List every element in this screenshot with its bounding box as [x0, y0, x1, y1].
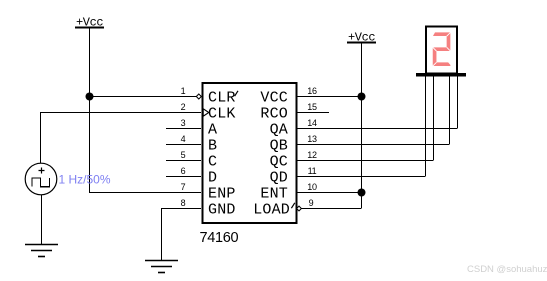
svg-text:D: D	[208, 170, 217, 187]
pin 2 CLK clock wedge	[203, 109, 209, 116]
svg-text:C: C	[208, 154, 217, 171]
node junction dot pin10/Vcc	[358, 189, 366, 197]
digit 2 segments a,b,g,e,d	[433, 34, 450, 64]
segment d right tip cut	[448, 62, 451, 65]
svg-text:+Vcc: +Vcc	[76, 16, 103, 30]
segment separator a/b	[447, 32, 451, 36]
wire pin1 CLR horizontal	[89, 96, 197, 98]
svg-text:2: 2	[181, 102, 186, 112]
svg-text:A: A	[208, 122, 217, 139]
wire pin10 ENT horizontal	[297, 192, 361, 194]
svg-text:11: 11	[308, 166, 317, 176]
svg-text:GND: GND	[208, 202, 236, 219]
wire pin16 VCC horizontal	[297, 96, 361, 98]
display U2 seven-segment body	[426, 27, 457, 74]
svg-text:4: 4	[181, 134, 186, 144]
wire pin12 QC horizontal	[297, 160, 433, 162]
svg-text:16: 16	[307, 86, 317, 96]
wire pin5 C stub	[166, 160, 201, 162]
svg-text:CSDN @sohuahuz: CSDN @sohuahuz	[467, 264, 547, 275]
wire display pin b vertical	[433, 76, 435, 161]
svg-text:15: 15	[307, 102, 317, 112]
wire pin2 CLK horizontal	[40, 112, 201, 114]
source square wave glyph	[32, 178, 50, 187]
svg-text:+Vcc: +Vcc	[348, 31, 375, 45]
wire CLK vertical to source	[40, 113, 42, 164]
wire Vcc right vertical	[361, 43, 363, 193]
wire Vcc left vertical	[89, 28, 91, 193]
svg-text:QD: QD	[270, 170, 288, 187]
svg-text:1 Hz/50%: 1 Hz/50%	[59, 173, 111, 187]
wire pin14 QA horizontal	[297, 128, 457, 130]
wire display pin a vertical	[425, 76, 427, 177]
wire pin9 LOAD horizontal	[301, 208, 361, 210]
svg-text:5: 5	[181, 150, 186, 160]
wire pin7 ENP horizontal	[89, 192, 201, 194]
wire GND vertical	[161, 209, 163, 261]
svg-text:QA: QA	[270, 122, 288, 139]
svg-text:CLK: CLK	[208, 106, 236, 123]
segment separator e/d	[433, 62, 437, 66]
svg-text:7: 7	[181, 182, 186, 192]
pin 1 CLR' input diamond	[196, 94, 201, 99]
svg-text:QB: QB	[270, 138, 288, 155]
svg-text:9: 9	[309, 198, 314, 208]
svg-text:VCC: VCC	[260, 90, 288, 107]
power +Vcc (right) bar	[347, 42, 376, 44]
svg-text:RCO: RCO	[260, 106, 288, 123]
svg-text:CLR: CLR	[208, 90, 236, 107]
svg-text:B: B	[208, 138, 217, 155]
display base bar	[416, 73, 466, 77]
svg-text:12: 12	[307, 150, 317, 160]
source plus sign	[39, 168, 45, 174]
svg-text:14: 14	[307, 118, 317, 128]
node junction dot pin16/Vcc	[358, 93, 366, 101]
svg-text:1: 1	[181, 86, 186, 96]
op IC U1 74160 box	[203, 83, 297, 223]
wire pin8 GND horizontal	[161, 208, 201, 210]
segment separator g/e	[433, 47, 437, 51]
power +Vcc (left) bar	[75, 27, 104, 29]
ground under GND pin	[145, 261, 178, 273]
wire source to ground	[41, 195, 43, 245]
node junction dot pin1/Vcc	[86, 93, 94, 101]
ground under source	[25, 245, 58, 257]
svg-text:74160: 74160	[200, 230, 239, 246]
svg-text:13: 13	[307, 134, 317, 144]
source V1 pulse circle	[25, 163, 57, 195]
wire display pin d vertical	[457, 76, 459, 129]
wire display pin c vertical	[449, 76, 451, 145]
wire pin15 RCO stub	[297, 112, 329, 114]
wire pin13 QB horizontal	[297, 144, 449, 146]
wire pin4 B stub	[166, 144, 201, 146]
wire pin9 vertical to ENT node	[361, 193, 363, 209]
svg-text:10: 10	[307, 182, 317, 192]
svg-text:3: 3	[181, 118, 186, 128]
svg-text:QC: QC	[270, 154, 288, 171]
wire pin3 A stub	[166, 128, 201, 130]
svg-text:ENT: ENT	[260, 186, 288, 203]
segment separator b/g	[447, 47, 451, 51]
svg-text:LOAD: LOAD	[253, 202, 290, 219]
segment a left tip cut	[433, 32, 435, 36]
wire pin11 QD horizontal	[297, 176, 425, 178]
svg-text:ENP: ENP	[208, 186, 236, 203]
wire pin6 D stub	[166, 176, 201, 178]
svg-text:6: 6	[181, 166, 186, 176]
svg-text:8: 8	[181, 198, 186, 208]
pin 9 LOAD' diamond	[297, 206, 302, 211]
